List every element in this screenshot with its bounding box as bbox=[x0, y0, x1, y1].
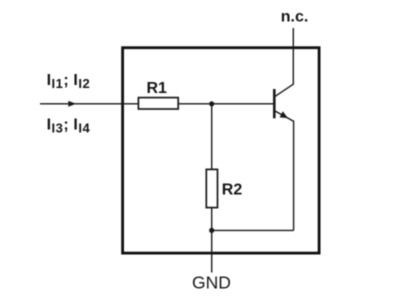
transistor Q1 emitter diagonal bbox=[275, 111, 294, 121]
svg-text:II4: II4 bbox=[73, 116, 90, 135]
svg-text:n.c.: n.c. bbox=[281, 8, 309, 25]
svg-text:GND: GND bbox=[192, 273, 231, 293]
arrowhead on input wire bbox=[68, 101, 76, 107]
node A junction dot bbox=[209, 101, 214, 106]
svg-text:II1;: II1; bbox=[47, 72, 70, 91]
svg-text:R1: R1 bbox=[147, 80, 168, 97]
emitter arrowhead bbox=[280, 111, 288, 118]
wire: node A down to R2 bbox=[211, 104, 213, 170]
svg-text:R2: R2 bbox=[222, 181, 243, 198]
resistor R2 bbox=[206, 169, 217, 207]
transistor Q1 collector diagonal bbox=[275, 84, 294, 96]
svg-text:II3;: II3; bbox=[47, 116, 70, 135]
transistor Q1 base bar bbox=[273, 89, 276, 118]
wire: node B down to GND pin bbox=[211, 230, 213, 272]
wire: R1 to transistor base bbox=[178, 103, 273, 105]
resistor R1 bbox=[138, 98, 178, 109]
IC outline box bbox=[123, 48, 320, 253]
wire: node B to emitter bbox=[212, 229, 294, 231]
wire: emitter down to bottom rail bbox=[293, 121, 295, 231]
wire: input lead bbox=[40, 103, 138, 105]
node B junction dot bbox=[209, 228, 214, 233]
wire: R2 to node B bbox=[211, 208, 213, 231]
svg-text:II2: II2 bbox=[73, 72, 90, 91]
wire: collector up to n.c. bbox=[292, 28, 294, 85]
